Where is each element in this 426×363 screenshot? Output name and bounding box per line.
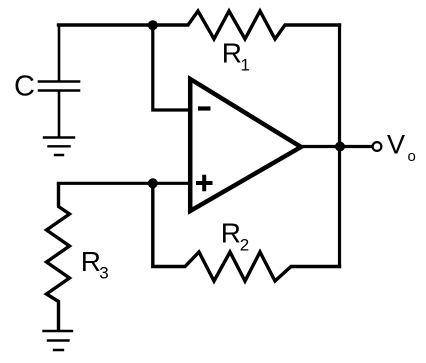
svg-text:R: R <box>81 246 101 277</box>
svg-text:o: o <box>408 148 416 165</box>
svg-text:C: C <box>14 71 35 103</box>
svg-text:1: 1 <box>241 56 250 75</box>
svg-text:3: 3 <box>99 264 108 283</box>
svg-text:2: 2 <box>240 236 249 255</box>
svg-text:R: R <box>221 217 241 248</box>
svg-text:V: V <box>387 130 405 160</box>
svg-text:R: R <box>222 38 242 69</box>
